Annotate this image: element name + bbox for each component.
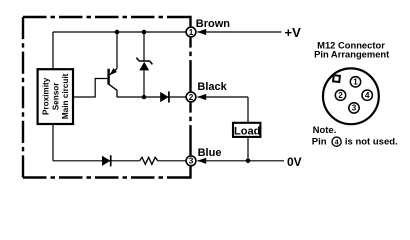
svg-text:Black: Black	[197, 81, 227, 93]
svg-text:Blue: Blue	[198, 147, 222, 159]
svg-text:is not used.: is not used.	[345, 137, 398, 148]
svg-text:2: 2	[338, 91, 343, 100]
svg-text:Brown: Brown	[196, 18, 231, 30]
svg-text:Load: Load	[234, 126, 260, 138]
svg-text:Sensor: Sensor	[51, 82, 60, 111]
svg-text:1: 1	[189, 28, 194, 37]
svg-text:Note.: Note.	[313, 125, 337, 136]
svg-text:4: 4	[365, 91, 370, 100]
svg-text:Pin Arrangement: Pin Arrangement	[314, 49, 389, 60]
svg-text:3: 3	[189, 157, 194, 166]
svg-text:Pin: Pin	[312, 137, 327, 148]
svg-text:Proximity: Proximity	[42, 77, 51, 115]
svg-text:0V: 0V	[287, 155, 302, 169]
svg-text:Main circuit: Main circuit	[61, 73, 70, 119]
svg-text:4: 4	[335, 137, 339, 146]
svg-text:+V: +V	[285, 25, 302, 40]
svg-text:1: 1	[353, 78, 358, 87]
svg-text:2: 2	[189, 93, 194, 102]
svg-text:3: 3	[352, 104, 357, 113]
